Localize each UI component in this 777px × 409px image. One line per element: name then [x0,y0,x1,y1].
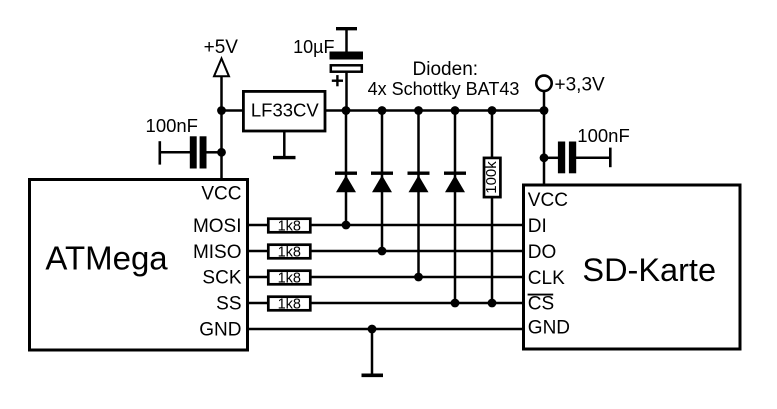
svg-text:4x Schottky BAT43: 4x Schottky BAT43 [368,79,520,99]
svg-text:LF33CV: LF33CV [251,99,320,120]
svg-text:SD-Karte: SD-Karte [582,252,716,288]
svg-text:10µF: 10µF [293,37,334,57]
svg-text:GND: GND [528,318,570,339]
svg-text:VCC: VCC [201,183,241,204]
svg-text:MOSI: MOSI [193,216,242,237]
svg-text:DO: DO [528,242,557,263]
svg-text:1k8: 1k8 [278,244,301,260]
svg-text:SS: SS [216,293,241,314]
svg-text:+3,3V: +3,3V [555,74,606,95]
svg-text:ATMega: ATMega [45,240,168,277]
svg-text:Dioden:: Dioden: [413,59,479,80]
svg-text:VCC: VCC [528,190,568,211]
svg-text:CS: CS [528,294,554,315]
svg-text:DI: DI [528,216,547,237]
svg-text:100nF: 100nF [577,125,629,146]
svg-text:MISO: MISO [193,242,242,263]
svg-text:GND: GND [199,319,241,340]
svg-text:1k8: 1k8 [278,296,301,312]
svg-text:100nF: 100nF [146,115,198,136]
svg-text:1k8: 1k8 [278,218,301,234]
svg-text:CLK: CLK [528,268,565,289]
svg-text:+5V: +5V [204,37,239,58]
svg-text:100k: 100k [483,161,500,194]
svg-text:1k8: 1k8 [278,270,301,286]
svg-text:SCK: SCK [202,268,241,289]
